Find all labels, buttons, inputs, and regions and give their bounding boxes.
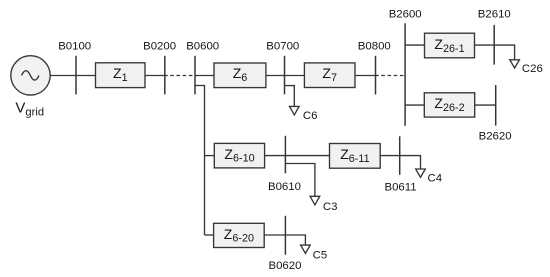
wire dashed B0800 to B2600 <box>376 75 379 77</box>
svg-text:B2620: B2620 <box>479 131 512 143</box>
wire B2610 to load C26 <box>494 45 514 60</box>
svg-text:B2610: B2610 <box>478 9 511 21</box>
wire branch from B0600 down <box>195 86 205 236</box>
impedance Z26-1 box <box>425 33 475 58</box>
wire source to B0200 <box>50 75 165 77</box>
svg-text:C6: C6 <box>303 110 318 122</box>
impedance Z6-20 box <box>214 223 265 247</box>
svg-text:B0700: B0700 <box>266 41 299 53</box>
svg-text:B0611: B0611 <box>385 181 417 193</box>
impedance Z6-10 box <box>214 143 264 168</box>
bus B0700 <box>284 56 286 95</box>
wire B0610 to load C3 <box>285 164 315 197</box>
impedance Z26-2 box <box>424 93 474 117</box>
impedance Z7 box <box>304 63 355 88</box>
bus B0800 <box>375 56 377 95</box>
bus B0600 <box>194 56 196 95</box>
bus B0620 <box>284 216 286 255</box>
load C5 triangle <box>301 245 311 253</box>
bus B0200 <box>164 56 166 95</box>
wire B0611 to load C4 <box>400 156 421 169</box>
svg-text:C26: C26 <box>522 63 543 75</box>
svg-text:C3: C3 <box>323 201 338 213</box>
wire Z26-1 to B2610 <box>475 44 495 46</box>
bus B2600 <box>404 23 406 126</box>
bus B0100 <box>75 56 77 95</box>
svg-text:Vgrid: Vgrid <box>15 99 44 118</box>
sine symbol <box>22 71 39 80</box>
wire B0620 to load C5 <box>285 235 305 245</box>
svg-text:B0100: B0100 <box>58 41 91 53</box>
impedance Z6 box <box>214 63 266 88</box>
voltage source V_grid <box>11 56 50 95</box>
load C4 triangle <box>416 169 426 177</box>
load C3 triangle <box>310 196 320 205</box>
wire B0600 to Z6 <box>195 75 214 77</box>
wire B2600 to Z26-2 <box>405 104 424 106</box>
svg-text:B0600: B0600 <box>186 41 219 53</box>
bus B0610 <box>284 136 286 174</box>
wire Z26-2 to B2620 <box>475 104 496 106</box>
svg-text:B0620: B0620 <box>269 260 302 272</box>
wire B0700 to load C6 <box>285 86 295 107</box>
bus B2610 <box>493 25 495 65</box>
svg-text:B0610: B0610 <box>268 181 301 193</box>
wire Z6-20 to B0620 <box>264 234 285 236</box>
svg-text:B0200: B0200 <box>143 41 176 53</box>
svg-text:B0800: B0800 <box>358 41 391 53</box>
bus B0611 <box>399 136 401 175</box>
wire Z7 to B0800 <box>355 75 376 77</box>
wire B0610 to Z6-11 <box>285 155 329 157</box>
wire branch to Z6-20 <box>205 234 214 236</box>
impedance Z1 box <box>96 63 146 88</box>
wire Z6 to Z7 <box>266 75 305 77</box>
wire dashed B0200 to B0600 <box>165 75 168 77</box>
wire Z6-10 to B0610 <box>265 155 286 157</box>
wire branch to Z6-10 <box>205 155 215 157</box>
wire B2600 to Z26-1 <box>405 44 424 46</box>
wire Z6-11 to B0611 <box>380 155 400 157</box>
svg-text:C4: C4 <box>428 173 443 185</box>
impedance Z6-11 box <box>330 144 381 169</box>
svg-text:C5: C5 <box>313 249 328 261</box>
load C26 triangle <box>510 60 520 68</box>
bus B2620 <box>495 85 497 126</box>
svg-text:B2600: B2600 <box>389 9 422 21</box>
load C6 triangle <box>290 106 300 115</box>
